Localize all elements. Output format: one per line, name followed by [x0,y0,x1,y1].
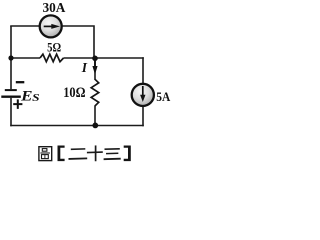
resistor 10-ohm zigzag [91,79,99,106]
wire center branch lower (10-ohm to bottom rail) [94,106,96,126]
wire top rail right segment with drop to middle rail [62,26,94,58]
svg-text:I: I [81,60,88,75]
resistor 5-ohm zigzag [40,54,64,62]
caption glyph ER (two) [69,149,86,159]
caption glyph left lenticular bracket [58,146,65,162]
wire middle rail left segment [10,57,40,59]
caption glyph SHI (ten) [88,146,102,160]
current source 5A circle [132,84,154,106]
caption glyph SAN (three) [105,149,120,159]
battery Es short (negative) plate [5,89,17,91]
node junction dot center (middle rail / 10-ohm branch) [92,56,98,62]
svg-text:30A: 30A [43,0,66,15]
svg-text:5A: 5A [156,89,171,104]
caption glyph right lenticular bracket [124,146,131,162]
wire left vertical lower (battery to bottom rail) [10,98,12,127]
wire bottom rail [10,125,144,127]
caption glyph TU (figure) [39,147,52,161]
svg-text:10Ω: 10Ω [63,85,85,101]
svg-text:S: S [32,92,39,104]
battery plus sign [13,99,22,109]
wire middle rail right segment [64,57,144,59]
svg-text:5Ω: 5Ω [47,41,61,55]
battery minus sign [16,81,24,83]
current source 30A circle [40,15,62,37]
current I arrow [92,61,97,75]
wire right branch lower (5A source to bottom rail) [142,107,144,127]
battery Es long (positive) plate [1,96,21,98]
wire right branch upper (to 5A source) [142,57,144,83]
wire top rail left segment [10,25,40,27]
svg-text:E: E [20,89,33,105]
node junction dot bottom (bottom rail / 10-ohm branch) [92,123,98,129]
wire left vertical upper (node A to battery) [10,26,12,89]
wire center branch upper (junction to 10-ohm) [94,58,96,80]
node junction dot left (middle rail / left wire) [8,55,13,60]
